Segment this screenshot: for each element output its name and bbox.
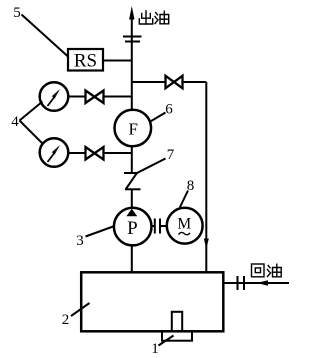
svg-text:3: 3 bbox=[76, 233, 84, 249]
svg-text:6: 6 bbox=[165, 102, 173, 118]
svg-text:7: 7 bbox=[167, 147, 175, 163]
svg-text:1: 1 bbox=[151, 341, 159, 357]
svg-text:RS: RS bbox=[74, 51, 97, 72]
svg-text:M: M bbox=[177, 216, 191, 233]
svg-text:4: 4 bbox=[11, 114, 19, 130]
svg-text:8: 8 bbox=[187, 178, 195, 194]
svg-text:5: 5 bbox=[13, 5, 21, 21]
svg-text:2: 2 bbox=[62, 312, 70, 328]
svg-text:P: P bbox=[127, 218, 138, 239]
svg-text:F: F bbox=[128, 120, 137, 139]
